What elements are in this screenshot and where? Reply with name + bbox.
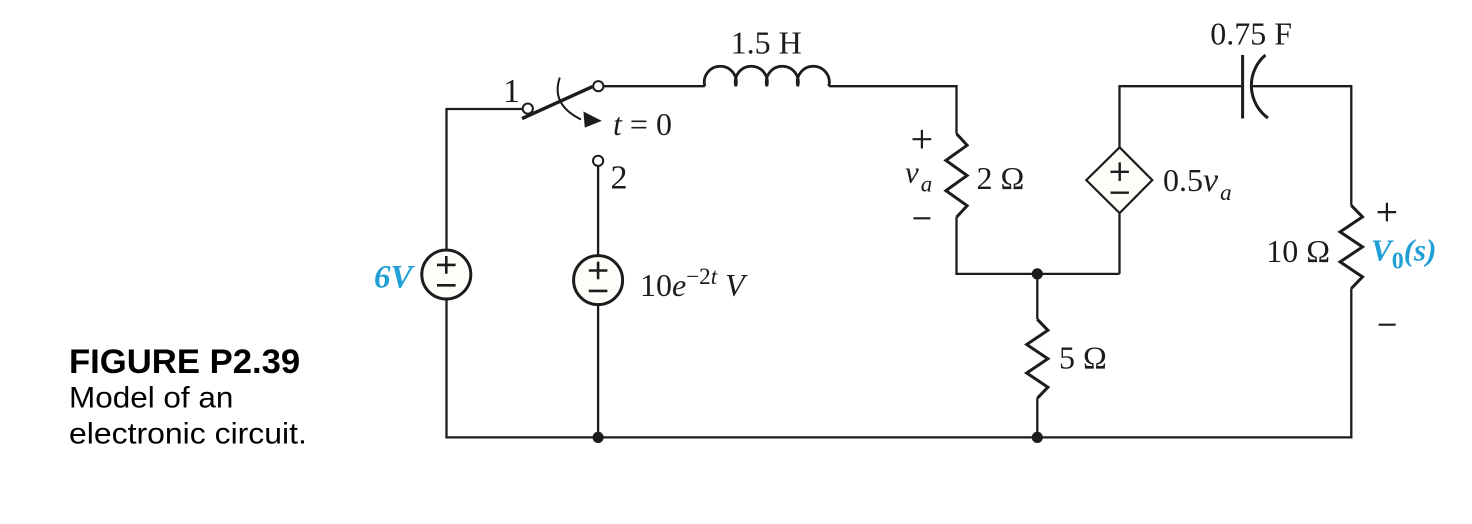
svg-text:6V: 6V [374, 260, 416, 296]
svg-text:2: 2 [611, 160, 628, 197]
svg-text:10 Ω: 10 Ω [1266, 233, 1330, 269]
svg-text:2 Ω: 2 Ω [977, 160, 1025, 196]
svg-text:electronic circuit.: electronic circuit. [69, 418, 307, 451]
svg-text:1: 1 [503, 73, 520, 110]
svg-text:t = 0: t = 0 [613, 106, 672, 142]
svg-text:0.75 F: 0.75 F [1210, 16, 1292, 52]
svg-text:Model of an: Model of an [69, 381, 233, 414]
svg-text:1.5 H: 1.5 H [731, 25, 802, 61]
svg-text:FIGURE P2.39: FIGURE P2.39 [69, 343, 300, 381]
svg-text:5 Ω: 5 Ω [1059, 340, 1107, 376]
